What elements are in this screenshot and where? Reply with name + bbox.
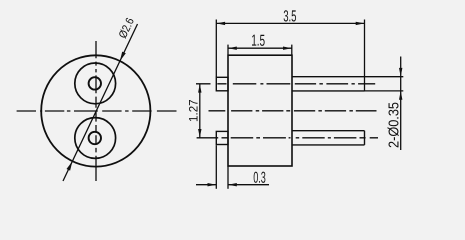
pad circle top (seal) <box>75 63 116 104</box>
dim 0.3: left leader <box>196 184 216 186</box>
body centerline <box>209 110 377 112</box>
svg-text:2-Ø0.35: 2-Ø0.35 <box>387 102 403 148</box>
arrowhead lower (on circle edge) <box>67 161 73 170</box>
pin 1 lead bottom edge <box>292 90 365 92</box>
pin 2 lead bottom edge <box>292 144 365 146</box>
dim 1.5: dimension line <box>228 47 292 49</box>
pin 1 left stub <box>216 77 228 91</box>
svg-text:3.5: 3.5 <box>283 8 296 25</box>
dim 2-Ø0.35: extension line bottom <box>365 90 404 92</box>
dim 3.5: left arrow <box>216 22 225 25</box>
dim 2-Ø0.35: upper arrow (pointing down) <box>399 68 402 77</box>
dim 1.5: right arrow <box>283 47 292 50</box>
pin 1 lead top edge <box>292 76 365 78</box>
dim 1.5: extension line left <box>227 45 229 55</box>
dim 1.5: extension line right <box>291 45 293 55</box>
dim 2-Ø0.35: dimension line <box>400 57 402 151</box>
pin 2 centerline <box>197 137 378 139</box>
pin 2 left stub <box>216 131 228 144</box>
svg-text:1.5: 1.5 <box>251 33 265 50</box>
dim 1.5: left arrow <box>228 47 237 50</box>
pin 2 lead top edge <box>292 130 365 132</box>
diameter dimension line Ø2.6 <box>63 24 138 181</box>
pin 2 lead end cap <box>364 131 366 145</box>
vertical centerline <box>95 41 97 181</box>
svg-text:1.27: 1.27 <box>189 99 201 122</box>
dim 1.27: dimension line <box>199 84 201 138</box>
dim 0.3: left arrow (pointing right) <box>208 183 217 186</box>
svg-text:0.3: 0.3 <box>253 170 266 187</box>
dim 0.3: extension line left (from stub) <box>215 145 217 189</box>
dim 0.3: right arrow (pointing left) <box>228 183 237 186</box>
pad circle bottom (seal) <box>75 118 116 159</box>
can outline circle (Ø2.6) <box>41 55 150 166</box>
dim 0.3: extension line right (body edge extended) <box>227 167 229 189</box>
dim 3.5: extension line left <box>215 20 217 78</box>
dim 3.5: dimension line <box>216 22 364 24</box>
pin 1 circle <box>89 77 101 89</box>
pin 2 circle <box>89 132 101 144</box>
pin 1 centerline <box>196 83 375 85</box>
dim 1.27: bottom arrow <box>198 129 201 138</box>
dim 2-Ø0.35: extension line top <box>365 76 404 78</box>
dim 3.5: extension line right <box>364 20 366 92</box>
horizontal centerline <box>17 110 177 112</box>
dim 3.5: right arrow <box>356 22 365 25</box>
arrowhead upper (on circle edge) <box>120 52 126 61</box>
dim 0.3: right leader <box>228 184 269 186</box>
dim 1.27: top arrow <box>198 84 201 93</box>
dim 2-Ø0.35: lower arrow (pointing up) <box>399 91 402 100</box>
body rectangle <box>228 55 292 166</box>
